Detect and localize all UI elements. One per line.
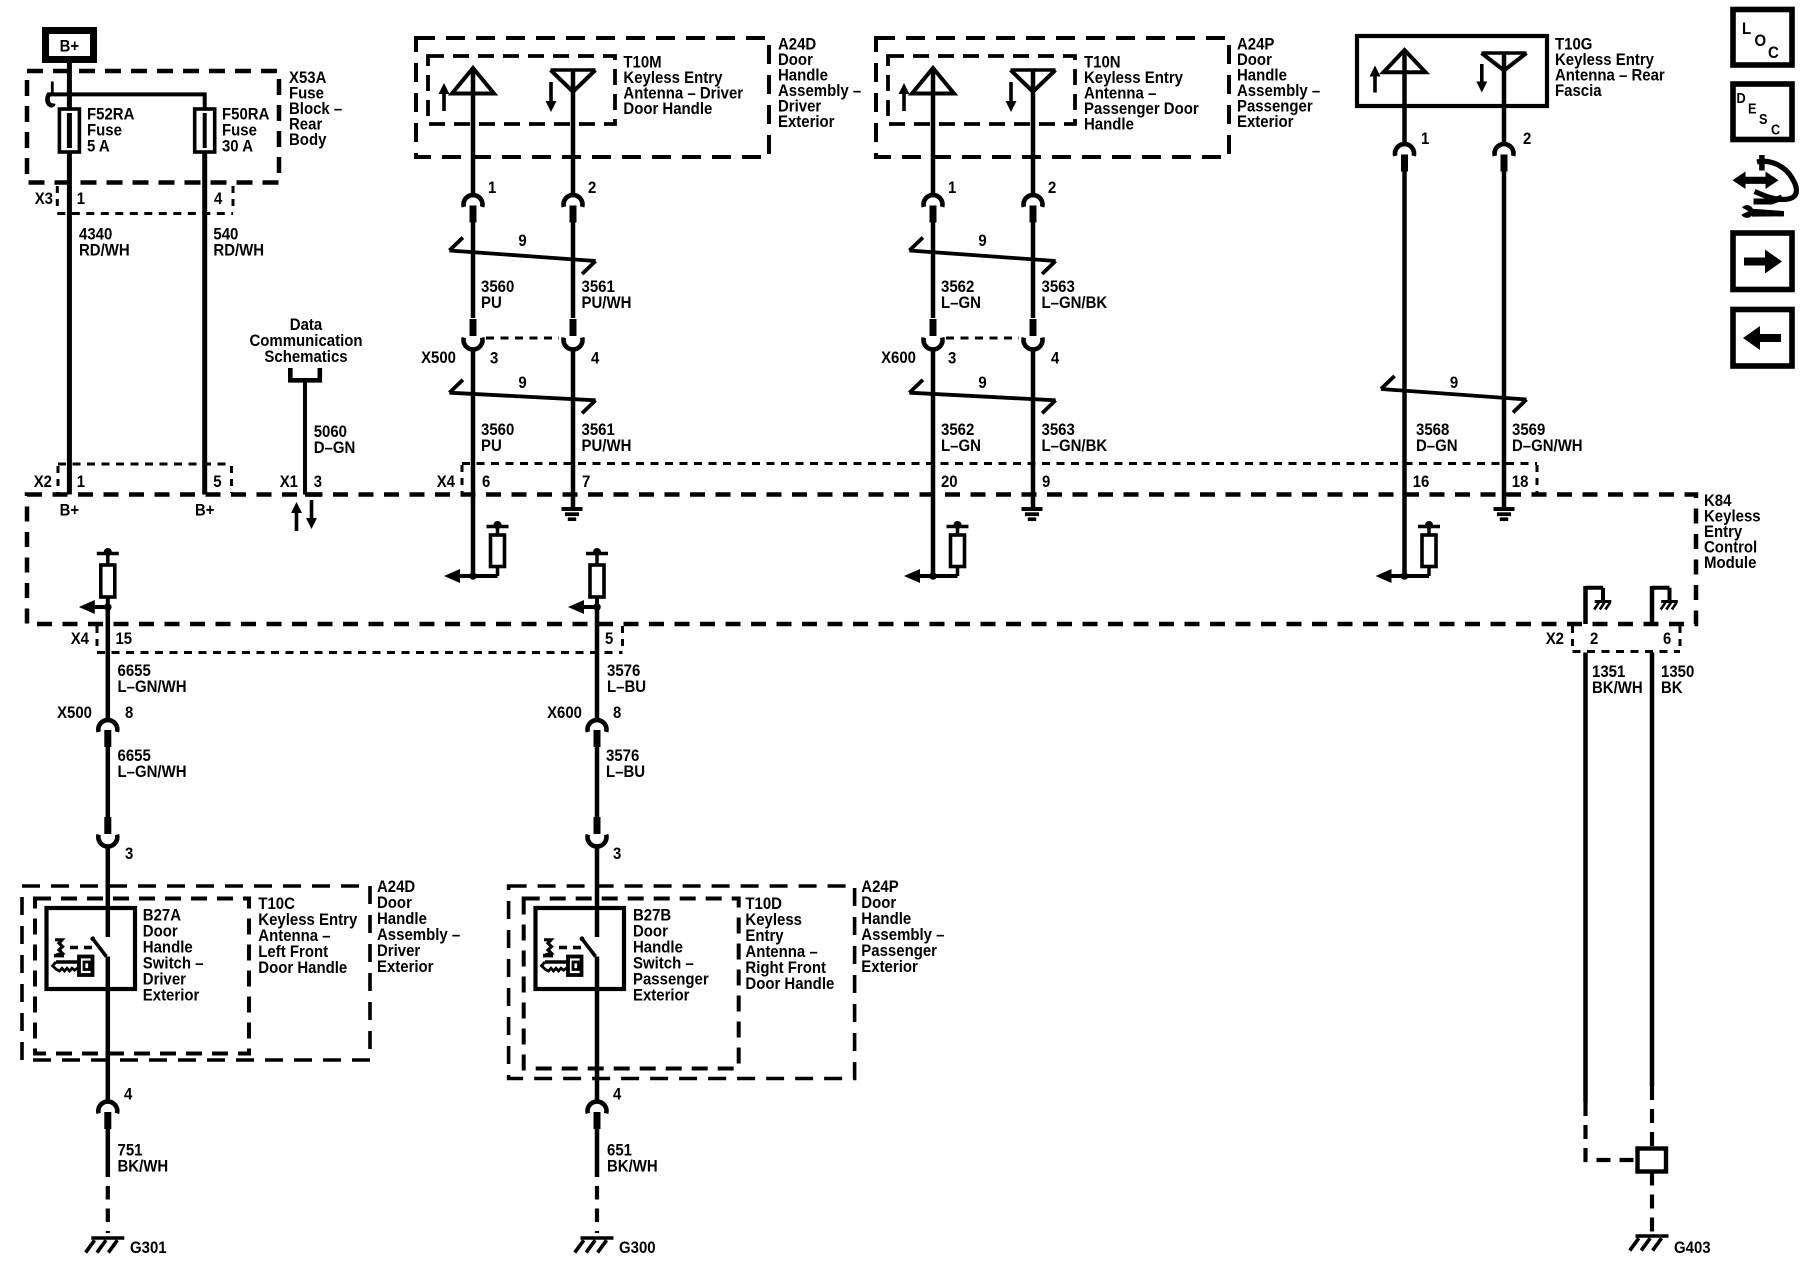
svg-text:BK/WH: BK/WH (607, 1157, 658, 1176)
svg-text:BK/WH: BK/WH (118, 1157, 169, 1176)
wire: switch B27B to pin 4 (595, 957, 600, 1101)
resistor: switch-sense internal pull-up (593, 548, 601, 556)
svg-text:1: 1 (77, 472, 85, 491)
svg-text:2: 2 (588, 178, 596, 197)
antenna T10N transmit element (912, 68, 954, 94)
assembly A24D Door Handle Assembly - Driver Exterior (bottom) dashed box (22, 886, 370, 1060)
svg-text:BK/WH: BK/WH (1592, 678, 1643, 697)
wire: T10M pin 1 lead (471, 68, 476, 194)
svg-text:PU: PU (481, 293, 502, 312)
svg-text:1: 1 (948, 178, 956, 197)
switch actuator dashed link (559, 946, 581, 949)
antenna T10M Keyless Entry Antenna - Driver Door Handle dashed box (428, 56, 615, 124)
svg-text:Exterior: Exterior (143, 986, 200, 1005)
wire 3562 L-GN lower (931, 351, 936, 577)
svg-text:Exterior: Exterior (633, 986, 690, 1005)
svg-text:5 A: 5 A (87, 137, 110, 156)
wire 3569 D-GN/WH (1502, 170, 1507, 507)
assembly A24D Door Handle Assembly - Driver Exterior (top) dashed box (416, 38, 769, 157)
assembly A24P Door Handle Assembly - Passenger Exterior (bottom) dashed box (509, 886, 855, 1079)
wire 1350 BK (1650, 653, 1655, 1087)
svg-text:7: 7 (582, 472, 590, 491)
wire 5060 D-GN (303, 380, 307, 495)
svg-text:2: 2 (1523, 129, 1531, 148)
svg-text:3: 3 (948, 349, 956, 368)
svg-text:C: C (1768, 43, 1779, 62)
internal: chassis ground at X2 pin 6 (1650, 586, 1655, 624)
svg-text:15: 15 (116, 629, 133, 648)
svg-text:Exterior: Exterior (377, 957, 434, 976)
wire 3563 L-GN/BK lower (1031, 351, 1036, 508)
svg-text:6: 6 (1663, 629, 1671, 648)
svg-text:PU/WH: PU/WH (582, 293, 632, 312)
svg-text:4: 4 (613, 1085, 622, 1104)
svg-text:L–GN/WH: L–GN/WH (118, 762, 187, 781)
antenna T10N receive element (1011, 68, 1056, 72)
svg-text:4: 4 (591, 349, 600, 368)
wire 6655 L-GN/WH upper (106, 607, 111, 719)
svg-text:X3: X3 (35, 189, 53, 208)
wire: T10N pin 2 lead (1031, 70, 1036, 194)
wire: into switch B27B (595, 848, 600, 938)
wire: internal antenna driver output junction (451, 574, 498, 578)
arrow: receive indicator (549, 82, 553, 103)
antenna T10M receive element (551, 68, 596, 72)
wire 751 BK/WH (106, 1128, 111, 1177)
wire: T10M pin 2 lead (571, 70, 576, 194)
svg-text:L–GN: L–GN (941, 293, 981, 312)
arrow: receive indicator (1480, 64, 1484, 84)
resistor: antenna driver internal (956, 567, 960, 577)
key icon (545, 960, 569, 963)
twisted pair mark (9) lower (909, 393, 1055, 401)
switch actuator dashed link (70, 946, 92, 949)
antenna T10N Keyless Entry Antenna - Passenger Door Handle dashed box (888, 56, 1075, 124)
svg-text:PU/WH: PU/WH (582, 436, 632, 455)
wire 540 RD/WH (202, 152, 207, 495)
wire 4340 RD/WH (67, 152, 72, 495)
svg-text:X4: X4 (71, 629, 90, 648)
svg-text:D–GN/WH: D–GN/WH (1512, 436, 1583, 455)
icon: diagnostics (double arrow, vehicle, wrench) (1733, 172, 1779, 190)
antenna T10M transmit element (452, 68, 494, 94)
svg-text:X1: X1 (280, 472, 298, 491)
twisted pair mark (9) (449, 251, 595, 262)
svg-text:D: D (1737, 91, 1746, 107)
svg-text:Door Handle: Door Handle (623, 99, 712, 118)
svg-text:30 A: 30 A (222, 137, 253, 156)
icon: back arrow box (1733, 310, 1792, 367)
svg-text:Handle: Handle (1084, 115, 1134, 134)
antenna T10D Keyless Entry Antenna - Right Front Door Handle dashed box (524, 899, 739, 1069)
svg-text:9: 9 (518, 373, 526, 392)
svg-text:9: 9 (978, 373, 986, 392)
svg-text:3: 3 (125, 844, 133, 863)
svg-text:X2: X2 (34, 472, 52, 491)
internal: chassis ground at X2 pin 2 (1583, 586, 1588, 624)
svg-text:B+: B+ (60, 501, 80, 520)
wire 3563 L-GN/BK upper (1031, 221, 1036, 318)
ground: internal at pin 7 (562, 507, 583, 511)
wire 1351 BK/WH (1583, 653, 1588, 1103)
node: serial data bidirectional arrows (295, 511, 299, 531)
ground G300 (581, 1236, 614, 1240)
svg-text:B+: B+ (195, 501, 215, 520)
svg-text:8: 8 (125, 703, 133, 722)
svg-text:L–BU: L–BU (606, 762, 645, 781)
twisted pair mark (9) (909, 251, 1055, 262)
svg-text:Door Handle: Door Handle (745, 974, 834, 993)
svg-text:S: S (1759, 112, 1768, 128)
svg-text:E: E (1748, 102, 1757, 118)
svg-text:6: 6 (482, 472, 490, 491)
svg-text:RD/WH: RD/WH (213, 241, 264, 260)
wire: internal sense junction with arrow (95, 605, 108, 609)
svg-text:3: 3 (613, 844, 621, 863)
arrow: transmit indicator (902, 92, 906, 111)
svg-text:9: 9 (978, 231, 986, 250)
wire: branch to fuse F50RA (48, 92, 205, 96)
wire: switch B27A to pin 4 (106, 957, 111, 1101)
svg-text:L–GN/WH: L–GN/WH (118, 677, 187, 696)
svg-text:L: L (1742, 19, 1751, 38)
svg-text:Exterior: Exterior (778, 112, 835, 131)
svg-text:D–GN: D–GN (1416, 436, 1458, 455)
svg-text:Module: Module (1704, 553, 1756, 572)
fuse F52RA 5A (59, 109, 79, 152)
svg-text:B+: B+ (60, 37, 80, 56)
svg-text:G403: G403 (1674, 1238, 1711, 1257)
svg-text:L–GN/BK: L–GN/BK (1042, 436, 1108, 455)
pin 3 (X500) (470, 319, 477, 336)
wire 3576 L-BU upper (595, 607, 600, 719)
svg-text:20: 20 (941, 472, 958, 491)
svg-text:X600: X600 (547, 703, 582, 722)
splice block (1638, 1149, 1667, 1172)
svg-text:8: 8 (613, 703, 621, 722)
wire 3560 PU lower (471, 351, 476, 577)
key icon (56, 960, 80, 963)
arrow: transmit indicator (442, 92, 446, 111)
pin 3 (B27B) connector (594, 817, 601, 834)
antenna T10G receive element (1482, 51, 1527, 55)
wire: T10G pin 1 lead (1402, 50, 1407, 143)
svg-text:9: 9 (518, 231, 526, 250)
wire 3561 PU/WH lower (571, 351, 576, 508)
wire: into switch B27A (106, 848, 111, 938)
switch blade (open) (90, 936, 95, 941)
switch blade (open) (580, 936, 585, 941)
module K84 Keyless Entry Control Module dashed outline (27, 495, 1696, 625)
resistor: switch-sense internal pull-up (104, 548, 112, 556)
hook: feed pigtail (51, 82, 54, 93)
svg-text:1: 1 (1421, 129, 1429, 148)
svg-text:X600: X600 (881, 348, 916, 367)
svg-text:G300: G300 (619, 1238, 656, 1257)
svg-text:L–GN: L–GN (941, 436, 981, 455)
switch box outline (536, 908, 625, 989)
wire: internal antenna driver output junction (1383, 574, 1430, 578)
svg-text:O: O (1755, 31, 1767, 50)
svg-text:Exterior: Exterior (1237, 112, 1294, 131)
svg-text:BK: BK (1661, 678, 1683, 697)
svg-text:16: 16 (1413, 472, 1430, 491)
svg-text:9: 9 (1450, 373, 1458, 392)
antenna T10C Keyless Entry Antenna - Left Front Door Handle dashed box (35, 899, 249, 1054)
wire: dashed splice to G403 (1650, 1172, 1654, 1235)
svg-text:X500: X500 (421, 348, 456, 367)
pin 3 (B27A) connector (104, 817, 111, 834)
svg-text:Door Handle: Door Handle (258, 958, 347, 977)
icon: next arrow box (1733, 233, 1792, 290)
arrow: receive indicator (1009, 82, 1013, 103)
wire: T10G pin 2 lead (1502, 53, 1507, 143)
wire: internal sense junction with arrow (584, 605, 597, 609)
wire: dashed 1350 to splice (1650, 1086, 1654, 1149)
wire 3561 PU/WH upper (571, 221, 576, 318)
B+ battery feed box (46, 31, 94, 60)
svg-text:9: 9 (1042, 472, 1050, 491)
ground G403 (1636, 1234, 1669, 1238)
svg-text:X500: X500 (57, 703, 92, 722)
wire 3576 L-BU lower (595, 747, 600, 817)
wire: B+ into fuse block (67, 60, 72, 109)
connector X4 (module K84 input) (462, 462, 1537, 465)
svg-text:C: C (1771, 123, 1781, 139)
ground G301 (91, 1236, 124, 1240)
svg-text:G301: G301 (130, 1238, 167, 1257)
svg-text:X4: X4 (437, 472, 456, 491)
svg-text:3: 3 (314, 472, 322, 491)
svg-text:5: 5 (605, 629, 613, 648)
connector X500 pins 3/4 (486, 337, 559, 340)
wire 6655 L-GN/WH lower (106, 747, 111, 817)
wire: dashed to G301 (106, 1186, 110, 1233)
svg-text:3: 3 (490, 349, 498, 368)
pin 4 (X600) (1030, 319, 1037, 336)
resistor: antenna driver internal (1427, 567, 1431, 577)
wire: dashed to G300 (595, 1186, 599, 1233)
svg-text:RD/WH: RD/WH (79, 241, 130, 260)
svg-text:L–GN/BK: L–GN/BK (1042, 293, 1108, 312)
wire: T10N pin 1 lead (931, 68, 936, 194)
fuse F50RA 30A (195, 109, 215, 152)
wire 3562 L-GN upper (931, 221, 936, 318)
svg-text:D–GN: D–GN (314, 438, 356, 457)
connector X3 of fuse block (57, 212, 233, 215)
svg-text:18: 18 (1512, 472, 1529, 491)
pin 3 (X600) (930, 319, 937, 336)
svg-text:Exterior: Exterior (861, 957, 918, 976)
assembly A24P Door Handle Assembly - Passenger Exterior (top) dashed box (876, 38, 1229, 157)
resistor: antenna driver internal (496, 567, 500, 577)
svg-text:Schematics: Schematics (264, 347, 347, 366)
svg-text:4: 4 (1051, 349, 1060, 368)
connector X2 (module K84 output, pins 2/6) (1573, 650, 1681, 653)
svg-text:4: 4 (124, 1085, 133, 1104)
antenna T10G Keyless Entry Antenna - Rear Fascia solid box (1357, 36, 1547, 106)
wire 3560 PU upper (471, 221, 476, 318)
svg-text:X2: X2 (1546, 629, 1564, 648)
svg-text:5: 5 (213, 472, 221, 491)
pin 4 (X500) (570, 319, 577, 336)
svg-text:1: 1 (488, 178, 496, 197)
svg-text:2: 2 (1590, 629, 1598, 648)
svg-text:Fascia: Fascia (1555, 81, 1602, 100)
wire 3568 D-GN (1402, 170, 1407, 576)
wire: dashed 1351 to splice (1586, 1102, 1635, 1160)
wire 651 BK/WH (595, 1128, 600, 1177)
svg-text:L–BU: L–BU (607, 677, 646, 696)
ground: internal at pin 9 (1022, 507, 1043, 511)
fuse block X53A dashed outline (27, 71, 279, 183)
icon: LOC box (1733, 10, 1792, 66)
key actuator zigzag (55, 940, 63, 955)
antenna T10G transmit element (1384, 50, 1426, 72)
arrow: transmit indicator (1373, 75, 1377, 93)
svg-text:4: 4 (214, 189, 223, 208)
connector X600 pins 3/4 (946, 337, 1019, 340)
ground: internal at pin 18 (1494, 507, 1515, 511)
connector X2 (module K84 input) (58, 463, 232, 466)
wire: internal antenna driver output junction (911, 574, 958, 578)
svg-text:Body: Body (289, 130, 327, 149)
connector X4 (module K84 output, pins 15/5) (97, 651, 623, 654)
svg-text:1: 1 (77, 189, 85, 208)
svg-text:2: 2 (1048, 178, 1056, 197)
switch box outline (47, 908, 136, 989)
twisted pair mark (9) (1381, 389, 1527, 400)
twisted pair mark (9) lower (449, 393, 595, 401)
svg-text:PU: PU (481, 436, 502, 455)
icon: DESC box (1733, 84, 1792, 140)
key actuator zigzag (544, 940, 552, 955)
